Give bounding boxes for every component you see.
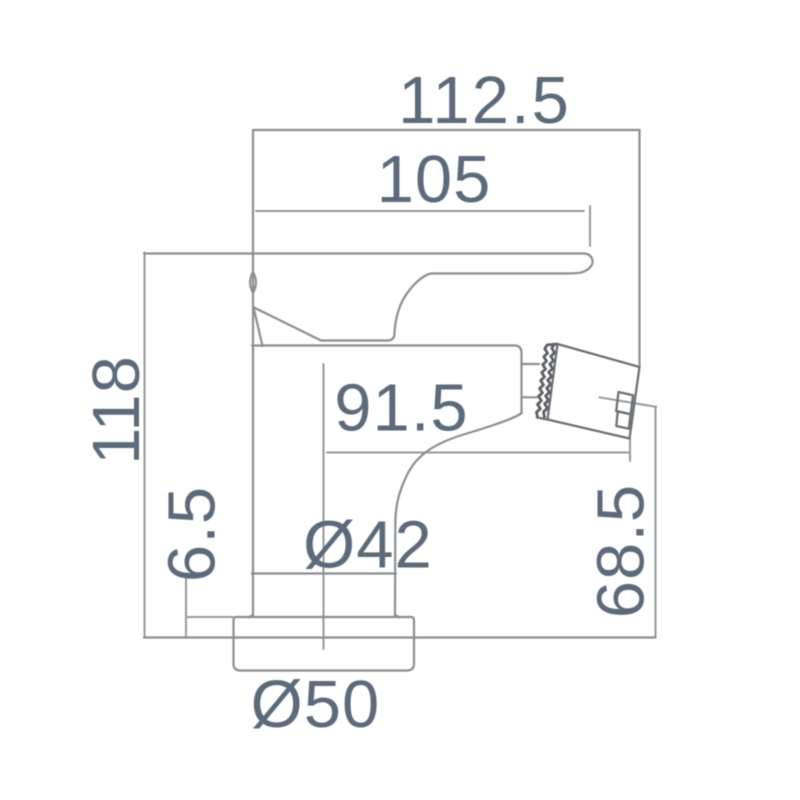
svg-text:105: 105 [377, 142, 492, 217]
svg-text:91.5: 91.5 [334, 371, 468, 446]
svg-text:112.5: 112.5 [398, 63, 571, 138]
svg-text:6.5: 6.5 [155, 486, 230, 582]
svg-text:Ø50: Ø50 [251, 667, 381, 742]
svg-text:118: 118 [79, 355, 154, 465]
svg-text:Ø42: Ø42 [303, 508, 433, 583]
svg-text:68.5: 68.5 [584, 484, 659, 618]
